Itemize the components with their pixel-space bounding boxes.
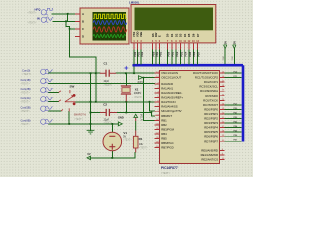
- svg-text:B: B: [82, 20, 84, 24]
- svg-text:RC4/SDI/SDA: RC4/SDI/SDA: [200, 89, 218, 93]
- svg-text:D1: D1: [170, 33, 174, 37]
- svg-text:RA2/AN2/VREF-: RA2/AN2/VREF-: [161, 91, 182, 95]
- svg-text:RD6/PSP6: RD6/PSP6: [204, 135, 218, 139]
- svg-text:V1: V1: [123, 131, 127, 135]
- svg-text:RC1/T1OSI/CCP2: RC1/T1OSI/CCP2: [195, 76, 218, 80]
- scope trace C red wave: [93, 27, 127, 32]
- svg-text:PD5: PD5: [234, 131, 238, 133]
- svg-text:PD0: PD0: [167, 51, 170, 56]
- wire row2 Con(1) to RA0: [49, 83, 155, 85]
- generator G2 sine: [41, 17, 53, 23]
- svg-text:22pF: 22pF: [104, 118, 110, 121]
- svg-text:RC2/CCP1: RC2/CCP1: [204, 80, 218, 84]
- wire C2 line staircase to RB0: [152, 113, 155, 116]
- scope pin letters: [82, 12, 84, 39]
- svg-text:D3: D3: [179, 33, 183, 37]
- svg-text:<TEXT>: <TEXT>: [161, 172, 171, 175]
- svg-text:RE0/AN5/RD: RE0/AN5/RD: [201, 148, 218, 152]
- svg-text:SW-ROT-6: SW-ROT-6: [74, 114, 87, 117]
- svg-text:<TEXT>: <TEXT>: [28, 22, 38, 25]
- wire net B to scope pin B: [53, 20, 75, 22]
- svg-text:VSS: VSS: [132, 32, 136, 37]
- svg-text:RD1/PSP1: RD1/PSP1: [204, 112, 218, 116]
- wire 5V terminal 2 drop: [233, 49, 235, 65]
- svg-text:PD5: PD5: [189, 51, 192, 56]
- wire row3 to switch contact: [49, 91, 59, 93]
- wire crystal bottom to C2 line: [125, 102, 127, 113]
- svg-text:PD2: PD2: [176, 51, 179, 56]
- wire B down staircase to scope pin C and middle rail: [66, 21, 96, 102]
- svg-text:RA3/AN3/VREF+: RA3/AN3/VREF+: [161, 96, 183, 100]
- svg-text:<TEXT>: <TEXT>: [21, 123, 31, 126]
- svg-text:IN: IN: [37, 16, 40, 20]
- svg-text:PD2: PD2: [234, 117, 238, 119]
- svg-text:Con(5B): Con(5B): [21, 106, 31, 110]
- svg-text:0V: 0V: [87, 152, 90, 156]
- wire A-B tie vertical: [67, 14, 69, 21]
- capacitor C2: [100, 103, 117, 125]
- svg-text:<TEXT>: <TEXT>: [104, 122, 113, 125]
- svg-text:OSC1/CLKIN: OSC1/CLKIN: [161, 71, 178, 75]
- svg-text:VEE: VEE: [139, 32, 143, 37]
- ground symbol: [87, 130, 95, 134]
- svg-text:<TEXT>: <TEXT>: [123, 139, 132, 142]
- wire ground rail vertical: [90, 73, 92, 130]
- svg-text:VDD: VDD: [136, 31, 140, 37]
- svg-text:<TEXT>: <TEXT>: [28, 12, 38, 15]
- svg-text:RB3/PGM: RB3/PGM: [161, 127, 174, 131]
- svg-text:<TEXT>: <TEXT>: [74, 118, 84, 121]
- svg-text:RB7/PGD: RB7/PGD: [161, 146, 174, 150]
- svg-text:PC7: PC7: [234, 103, 238, 105]
- svg-text:D0: D0: [166, 33, 170, 37]
- svg-text:5V: 5V: [233, 41, 236, 44]
- svg-text:RC0/T1OSO/T1CKI: RC0/T1OSO/T1CKI: [193, 71, 218, 75]
- wires group: [49, 14, 235, 158]
- svg-text:<TEXT>: <TEXT>: [104, 84, 113, 87]
- svg-text:PD3: PD3: [234, 121, 238, 123]
- svg-text:GND: GND: [118, 115, 124, 119]
- svg-text:RB0/INT: RB0/INT: [161, 114, 172, 118]
- svg-text:RE2/AN7/CS: RE2/AN7/CS: [201, 157, 218, 161]
- svg-text:RD0/PSP0: RD0/PSP0: [204, 107, 218, 111]
- svg-text:VDD: VDD: [232, 55, 234, 60]
- svg-text:RA4/T0CKI: RA4/T0CKI: [161, 100, 176, 104]
- svg-text:A: A: [82, 12, 84, 16]
- svg-text:C2: C2: [103, 103, 107, 107]
- wire to scope pin C: [70, 28, 75, 30]
- oscilloscope screen: [93, 12, 127, 41]
- blue origin marker: [124, 66, 128, 70]
- capacitor C1: [100, 61, 116, 86]
- svg-text:<TEXT>: <TEXT>: [21, 101, 31, 104]
- svg-text:PD6: PD6: [193, 51, 196, 56]
- svg-text:<TEXT>: <TEXT>: [139, 147, 148, 150]
- generator labels: [35, 7, 42, 20]
- svg-text:MCLR: MCLR: [139, 114, 142, 121]
- oscilloscope body: [75, 8, 129, 44]
- svg-text:RD3/PSP3: RD3/PSP3: [204, 121, 218, 125]
- wire row1 Con(0) to OSC1 line: [49, 72, 155, 74]
- svg-text:E: E: [158, 35, 162, 37]
- svg-text:RW: RW: [154, 32, 158, 37]
- wire row5 to switch contact: [49, 110, 61, 112]
- wire crystal top vertical: [125, 73, 127, 86]
- svg-text:RA5/AN4/SS: RA5/AN4/SS: [161, 105, 178, 109]
- MCLR terminal arrow up: [134, 114, 143, 121]
- wire C2 line: [91, 112, 152, 114]
- svg-text:SW: SW: [70, 84, 75, 88]
- svg-text:D4: D4: [183, 33, 187, 37]
- svg-text:RS: RS: [151, 33, 155, 37]
- generator G1 square: [41, 8, 53, 15]
- LCD net labels above bus: [134, 51, 201, 56]
- svg-text:20MHz: 20MHz: [134, 92, 142, 95]
- svg-text:PD7: PD7: [198, 51, 201, 56]
- svg-text:<TEXT>: <TEXT>: [21, 82, 31, 85]
- svg-text:RB4: RB4: [161, 132, 167, 136]
- svg-text:PD7: PD7: [234, 140, 238, 142]
- svg-text:PD1: PD1: [234, 112, 238, 114]
- 5V power terminal 1: [223, 41, 227, 61]
- wire switch bottom contact down to ground net: [68, 112, 70, 124]
- svg-text:RD2/PSP2: RD2/PSP2: [204, 117, 218, 121]
- wire 5V terminal 1 drop: [224, 49, 226, 65]
- wire OSC2 net down to RB0: [144, 78, 155, 121]
- svg-text:RC6/TX/CK: RC6/TX/CK: [203, 98, 218, 102]
- svg-text:PD4: PD4: [185, 51, 188, 56]
- svg-text:RD4/PSP4: RD4/PSP4: [204, 126, 218, 130]
- svg-text:<TEXT>: <TEXT>: [22, 73, 32, 76]
- svg-text:RB2: RB2: [161, 123, 167, 127]
- wire LCD VSS drop through bus: [133, 50, 135, 74]
- wire net A to scope pin A: [52, 13, 75, 15]
- 5V power terminal 2: [232, 41, 236, 61]
- svg-text:PD2: PD2: [141, 51, 144, 56]
- svg-text:PC0: PC0: [234, 71, 238, 73]
- LCD wires to bus: [134, 50, 198, 65]
- svg-text:RC5/SDO: RC5/SDO: [205, 94, 218, 98]
- scope trace D green sine: [93, 34, 125, 37]
- wire crystal line down to MCLR pin: [150, 102, 155, 111]
- svg-text:5V: 5V: [123, 136, 126, 139]
- svg-text:RB5: RB5: [161, 137, 167, 141]
- GND terminal: [118, 115, 124, 126]
- svg-text:RD7/PSP7: RD7/PSP7: [204, 139, 218, 143]
- svg-text:OSC2/CLKOUT: OSC2/CLKOUT: [161, 76, 181, 80]
- wire R1 bottom to rail: [134, 153, 136, 158]
- svg-text:D: D: [82, 35, 84, 39]
- LCD LM016L: [129, 1, 216, 65]
- svg-text:PD3: PD3: [180, 51, 183, 56]
- svg-text:RC7/RX/DT: RC7/RX/DT: [203, 103, 218, 107]
- svg-text:D6: D6: [192, 33, 196, 37]
- svg-text:Con(2B): Con(2B): [21, 87, 31, 91]
- svg-text:Con(4A): Con(4A): [21, 96, 31, 100]
- bus blue: [133, 65, 244, 141]
- svg-text:X1: X1: [135, 87, 139, 91]
- wire OSC2 terminal to pin: [143, 77, 155, 79]
- svg-text:RB6/PGC: RB6/PGC: [161, 141, 174, 145]
- svg-text:<TEXT>: <TEXT>: [21, 110, 31, 113]
- svg-text:PB2: PB2: [159, 51, 162, 56]
- Con generators column: [21, 69, 53, 126]
- wire row6 ground net to GND terminal: [49, 123, 119, 125]
- LCD pin name labels: [132, 31, 200, 37]
- svg-text:22pF: 22pF: [104, 80, 110, 83]
- svg-text:C1: C1: [104, 61, 108, 65]
- PIC16F877 U1: [155, 71, 242, 176]
- svg-text:<TEXT>: <TEXT>: [134, 96, 143, 99]
- svg-text:PC1: PC1: [234, 76, 238, 78]
- switch selected dots: [73, 94, 76, 97]
- svg-text:RB1: RB1: [161, 118, 167, 122]
- scope trace A yellow square: [93, 14, 126, 18]
- svg-text:MCLR/Vpp/THV: MCLR/Vpp/THV: [161, 109, 181, 113]
- svg-text:PD0: PD0: [234, 108, 238, 110]
- svg-text:PD1: PD1: [172, 51, 175, 56]
- svg-text:RD5/PSP5: RD5/PSP5: [204, 130, 218, 134]
- scope pin stubs: [75, 14, 80, 37]
- scope trace B blue sine: [93, 21, 127, 25]
- OSC2 terminal arrow right: [137, 76, 144, 84]
- wire V1 top lead: [111, 124, 113, 132]
- svg-text:5V: 5V: [224, 41, 227, 44]
- crystal X1: [121, 86, 143, 101]
- svg-text:D2: D2: [174, 33, 178, 37]
- svg-text:C: C: [82, 27, 84, 31]
- svg-text:RA1/AN1: RA1/AN1: [161, 86, 173, 90]
- resistor R1: [133, 117, 148, 152]
- wire V1 bottom lead: [111, 151, 113, 158]
- svg-text:D7: D7: [196, 33, 200, 37]
- wire switch pole to RE0: [76, 101, 155, 103]
- svg-text:RA0/AN0: RA0/AN0: [161, 82, 173, 86]
- svg-text:VDD: VDD: [223, 55, 225, 60]
- svg-text:4MHz: 4MHz: [137, 82, 144, 84]
- wire row4 to switch contact: [49, 100, 59, 102]
- svg-text:R1: R1: [139, 137, 143, 141]
- svg-text:<TEXT>: <TEXT>: [21, 92, 31, 95]
- 0V terminal: [87, 152, 91, 160]
- svg-text:RE1/AN6/WR: RE1/AN6/WR: [201, 153, 218, 157]
- svg-text:RC3/SCK/SCL: RC3/SCK/SCL: [199, 85, 218, 89]
- svg-text:Con(1B): Con(1B): [21, 78, 31, 82]
- LCD pin stubs: [134, 43, 198, 50]
- LCD pin numbers: [133, 40, 199, 43]
- wire bottom rail: [90, 157, 135, 159]
- switch SW rotary: [59, 84, 87, 121]
- svg-text:PD6: PD6: [234, 135, 238, 137]
- svg-text:Con(6B): Con(6B): [21, 119, 31, 123]
- svg-text:PIC16F877: PIC16F877: [161, 166, 178, 170]
- svg-text:D5: D5: [187, 33, 191, 37]
- junction dots: [65, 13, 152, 159]
- svg-text:Con(0): Con(0): [22, 69, 30, 73]
- battery V1: [103, 131, 132, 151]
